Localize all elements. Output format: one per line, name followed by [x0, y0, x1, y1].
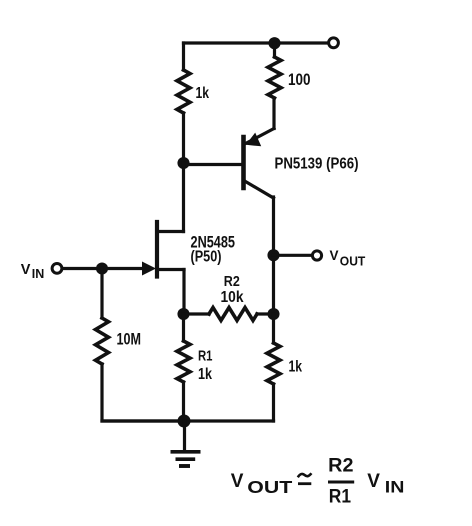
- node Vin junction dot: [96, 262, 108, 274]
- node Vout junction dot: [267, 249, 279, 261]
- wire JFET source lead: [159, 268, 184, 271]
- wire R1 top lead: [182, 314, 185, 341]
- wire base lead: [184, 163, 242, 166]
- node drain junction dot: [177, 157, 189, 169]
- svg-text:R1: R1: [329, 485, 351, 507]
- wire 1k right bottom lead: [272, 384, 275, 421]
- wire gate lead: [64, 267, 145, 270]
- resistor 100: [268, 57, 281, 98]
- svg-text:(P50): (P50): [191, 249, 222, 266]
- resistor 10M: [96, 318, 109, 364]
- arrow gate (JFET): [142, 262, 156, 276]
- svg-text:R2: R2: [224, 274, 240, 290]
- node junction dot top rail: [268, 37, 280, 49]
- wire Vout lead: [274, 254, 313, 257]
- wire Vin node down to 10M: [100, 269, 103, 319]
- wire top supply rail: [184, 41, 329, 44]
- wire rail down to 100: [273, 43, 276, 57]
- wire drain vertical: [182, 163, 185, 232]
- node ground junction dot: [178, 415, 191, 428]
- node R2 right junction dot: [267, 308, 279, 320]
- svg-text:V: V: [367, 471, 380, 492]
- svg-text:R1: R1: [198, 347, 213, 364]
- svg-text:100: 100: [288, 70, 311, 89]
- resistor 1k (upper left): [177, 70, 190, 113]
- svg-text:PN5139 (P66): PN5139 (P66): [275, 156, 359, 173]
- svg-text:OUT: OUT: [247, 477, 292, 497]
- wire emitter diagonal: [246, 129, 275, 144]
- wire from rail down to 1k: [182, 43, 185, 70]
- svg-text:1k: 1k: [196, 85, 210, 102]
- node R2 left junction dot: [177, 308, 189, 320]
- fraction bar: [328, 480, 354, 483]
- svg-text:10M: 10M: [117, 329, 142, 348]
- wire R1 bottom lead: [182, 382, 185, 421]
- svg-text:V: V: [21, 262, 31, 278]
- wire R2 right lead: [257, 312, 274, 315]
- wire R2 left lead: [184, 312, 210, 315]
- formula Vout = R2/R1 Vin: [231, 454, 405, 507]
- resistor 1k (right): [267, 343, 280, 384]
- wire 10M down to bottom rail: [102, 364, 184, 421]
- wire emitter vertical: [272, 98, 275, 129]
- wire collector diagonal: [246, 182, 274, 199]
- svg-text:R2: R2: [328, 454, 353, 476]
- terminal circle top right: [329, 38, 339, 48]
- resistor R1: [177, 341, 190, 382]
- arrow emitter (PNP): [246, 133, 261, 147]
- transistor Q1 PN5139 bar: [241, 137, 246, 188]
- svg-text:10k: 10k: [221, 289, 244, 306]
- terminal circle Vout: [312, 251, 321, 260]
- wire collector vertical: [272, 197, 275, 314]
- wire source vertical: [182, 270, 185, 315]
- terminal circle Vin: [52, 264, 62, 274]
- label formula approx sign: [298, 473, 312, 477]
- wire 1k to drain node: [182, 113, 185, 163]
- ground symbol: [171, 452, 201, 466]
- svg-text:1k: 1k: [289, 359, 303, 376]
- wire 1k right top lead: [272, 314, 275, 343]
- svg-text:V: V: [330, 248, 339, 263]
- resistor R2 10k: [209, 308, 257, 321]
- transistor Q2 2N5485 JFET channel bar: [155, 222, 159, 277]
- svg-text:1k: 1k: [198, 366, 212, 383]
- wire JFET drain lead: [159, 230, 184, 233]
- svg-text:OUT: OUT: [340, 255, 366, 269]
- wire bottom rail: [102, 419, 274, 422]
- svg-text:V: V: [231, 471, 244, 492]
- wire ground stub: [183, 421, 186, 452]
- svg-text:IN: IN: [32, 266, 45, 281]
- svg-text:IN: IN: [385, 478, 405, 497]
